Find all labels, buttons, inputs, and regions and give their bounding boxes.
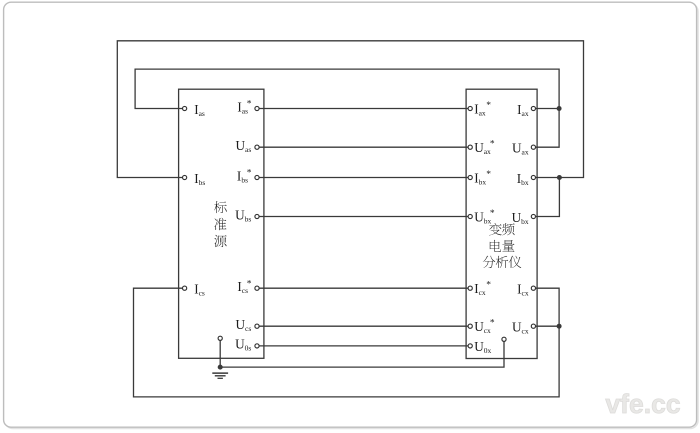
svg-text:*: *: [490, 209, 495, 219]
node junction Ucx/Icx/loop-C: [557, 324, 562, 329]
wire phase-A return: Iax junction up across top to Ias: [135, 69, 559, 108]
terminal Uax*: [468, 145, 472, 149]
box analyzer 变频电量分析仪: [466, 89, 537, 358]
svg-text:*: *: [247, 279, 252, 289]
wire Ucx to junction: [533, 325, 559, 327]
terminal Ibs*: [255, 175, 259, 179]
wire Ibs* to Ibx*: [257, 177, 470, 179]
terminal Ucx: [531, 324, 535, 328]
wire Uas to Uax*: [257, 146, 470, 148]
svg-text:*: *: [247, 169, 252, 179]
terminal Ucs: [255, 324, 259, 328]
terminal Ias: [183, 106, 187, 110]
terminal U0x: [468, 344, 472, 348]
wire junction down to Ubx: [533, 178, 559, 217]
svg-text:*: *: [247, 100, 252, 110]
wire junction down to Uax: [533, 109, 559, 148]
terminal Ubx: [531, 214, 535, 218]
wire Ias* to Iax*: [257, 108, 470, 110]
label 标准源 (standard source): [214, 201, 227, 247]
wire Iax to junction: [533, 108, 559, 110]
wire Ucs to Ucx*: [257, 325, 470, 327]
svg-text:vfe.cc: vfe.cc: [605, 389, 680, 419]
terminal Ias*: [255, 106, 259, 110]
terminal Ics*: [255, 286, 259, 290]
terminal Iax: [531, 106, 535, 110]
terminal Ibx: [531, 175, 535, 179]
wire phase-B return: Ibx across outer top to Ibs: [117, 41, 583, 178]
node junction Iax/Uax/loop-A: [557, 106, 562, 111]
wire ground node to analyzer case: [220, 339, 504, 367]
label 变频电量分析仪 (VF power analyzer): [483, 223, 522, 268]
terminal Ibx*: [468, 175, 472, 179]
svg-text:*: *: [486, 170, 491, 180]
terminal Icx*: [468, 286, 472, 290]
terminal Ubs: [255, 214, 259, 218]
terminal Ics: [183, 286, 187, 290]
wire source case to ground node: [219, 338, 221, 367]
box standard source 标准源: [179, 89, 264, 358]
terminal Iax*: [468, 106, 472, 110]
terminal Ucx*: [468, 324, 472, 328]
terminal analyzer ground: [502, 337, 506, 341]
svg-text:*: *: [486, 281, 491, 291]
wire Ubs to Ubx*: [257, 216, 470, 218]
node ground junction: [218, 365, 223, 370]
wire Ics* to Icx*: [257, 287, 470, 289]
svg-text:*: *: [486, 101, 491, 111]
node junction Ibx/Ubx/loop-B: [557, 175, 562, 180]
svg-text:*: *: [490, 140, 495, 150]
terminal U0s: [255, 344, 259, 348]
svg-text:*: *: [490, 319, 495, 329]
ground symbol: [212, 373, 228, 378]
wire U0s to U0x: [257, 345, 470, 347]
terminal source ground: [218, 336, 222, 340]
terminal Icx: [531, 286, 535, 290]
terminal Uax: [531, 145, 535, 149]
terminal Ibs: [183, 175, 187, 179]
wire phase-C return: Icx down around bottom to Ics: [134, 288, 560, 397]
terminal Ubx*: [468, 214, 472, 218]
terminal Uas: [255, 145, 259, 149]
